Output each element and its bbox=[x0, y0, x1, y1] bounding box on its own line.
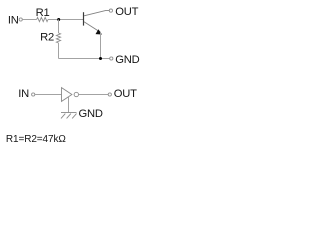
terminal IN (top) bbox=[19, 18, 22, 21]
svg-text:R2: R2 bbox=[40, 31, 54, 43]
inverter U1 bubble bbox=[74, 92, 78, 96]
svg-text:R1: R1 bbox=[36, 7, 50, 19]
inverter U1 triangle bbox=[62, 88, 72, 102]
wire inverter to OUT bbox=[79, 94, 109, 96]
wire emitter to rail bbox=[100, 32, 102, 58]
resistor R1 bbox=[37, 17, 48, 21]
terminal IN (bottom) bbox=[32, 93, 35, 96]
transistor Q1 emitter bbox=[84, 22, 100, 32]
node junction dot (R1/R2/base) bbox=[57, 18, 60, 21]
wire inverter to ground bbox=[68, 97, 70, 113]
node junction dot (emitter/rail) bbox=[99, 57, 102, 60]
transistor Q1 collector bbox=[84, 11, 109, 16]
terminal GND (top) bbox=[110, 57, 113, 60]
svg-text:GND: GND bbox=[115, 54, 139, 66]
wire ground rail bbox=[59, 58, 110, 60]
resistor R2 bbox=[56, 33, 60, 43]
transistor Q1 emitter arrow bbox=[96, 29, 103, 34]
wire R1 to base bbox=[48, 19, 84, 21]
wire IN to inverter bbox=[35, 94, 62, 96]
wire node to R2 bbox=[58, 20, 60, 34]
ground bbox=[61, 113, 77, 119]
terminal OUT (top) bbox=[109, 9, 112, 12]
wire IN to R1 bbox=[22, 19, 36, 21]
svg-text:IN: IN bbox=[8, 15, 19, 27]
transistor Q1 base bar bbox=[83, 12, 85, 25]
svg-text:IN: IN bbox=[18, 88, 29, 100]
terminal OUT (bottom) bbox=[108, 93, 111, 96]
svg-text:OUT: OUT bbox=[114, 88, 137, 100]
svg-text:R1=R2=47kΩ: R1=R2=47kΩ bbox=[6, 134, 66, 145]
svg-text:GND: GND bbox=[79, 108, 103, 120]
svg-text:OUT: OUT bbox=[115, 6, 138, 18]
wire R2 to rail bbox=[58, 43, 60, 59]
